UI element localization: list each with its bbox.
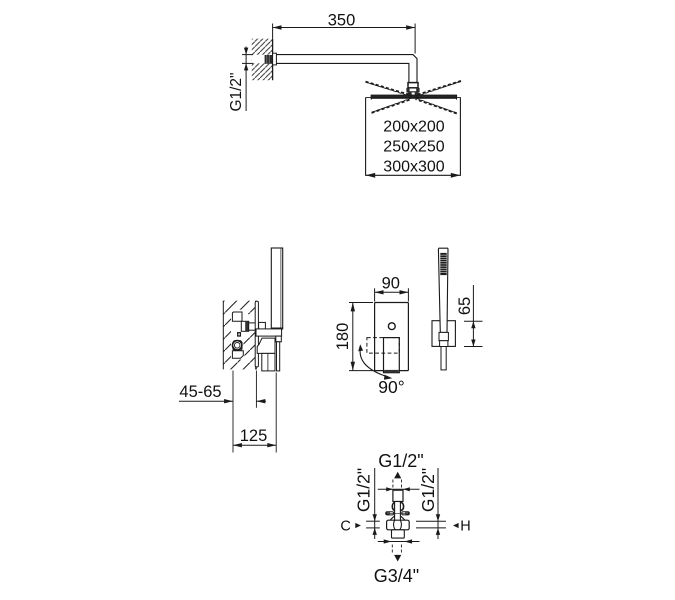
valve body clearance halo xyxy=(231,310,256,360)
handshower side view body xyxy=(271,248,282,329)
mixer pipe collar xyxy=(241,321,248,331)
mounting wings xyxy=(386,512,410,515)
svg-text:G1/2": G1/2" xyxy=(354,468,374,512)
mixer top block xyxy=(232,312,242,321)
svg-text:45-65: 45-65 xyxy=(179,383,221,401)
diverter button xyxy=(388,323,395,330)
left inlet pipe xyxy=(366,521,380,528)
extension line depth ref xyxy=(232,371,234,453)
swivel joint lower blobs xyxy=(408,92,419,95)
holder step xyxy=(440,341,448,347)
wall hatch top xyxy=(252,39,273,80)
lever handle bar xyxy=(277,342,280,371)
bracket lip xyxy=(276,336,282,342)
valve top tube xyxy=(393,490,403,501)
dimension 125 xyxy=(233,443,276,447)
collar shading xyxy=(245,322,248,331)
mixer outlet pipe xyxy=(249,323,265,330)
mixer bottom block xyxy=(232,351,243,359)
rotation arc xyxy=(360,347,389,378)
extension line wall face xyxy=(255,371,257,408)
dimension 350 xyxy=(273,24,416,54)
size box xyxy=(366,97,461,175)
handle front xyxy=(384,338,400,373)
svg-text:200x200: 200x200 xyxy=(383,119,444,136)
dashed leaders top xyxy=(393,480,402,489)
svg-text:G1/2": G1/2" xyxy=(228,72,245,111)
svg-text:C: C xyxy=(340,518,350,534)
left inlet dimension xyxy=(373,468,377,539)
shower arm horizontal tube xyxy=(273,55,417,83)
svg-text:65: 65 xyxy=(456,297,474,315)
valve body xyxy=(387,520,410,530)
ball collar arcs xyxy=(392,502,403,510)
dimension 180 xyxy=(349,303,373,371)
arc arrowheads xyxy=(358,344,392,380)
dimension 65 xyxy=(464,285,483,347)
holder cup xyxy=(439,332,448,340)
cartridge circle xyxy=(233,341,242,350)
right inlet dimension xyxy=(436,468,440,539)
valve stem xyxy=(395,502,401,524)
svg-text:H: H xyxy=(460,519,470,535)
mixer screw xyxy=(238,333,241,336)
wall back edge line xyxy=(222,301,224,370)
svg-text:G1/2": G1/2" xyxy=(378,451,423,471)
svg-text:300x300: 300x300 xyxy=(383,159,444,176)
handshower wall plate xyxy=(432,321,455,347)
hose tube xyxy=(441,347,446,370)
svg-text:350: 350 xyxy=(328,12,356,30)
svg-text:250x250: 250x250 xyxy=(383,139,444,156)
arrow up xyxy=(394,472,401,479)
dimension G1/2 arm thread xyxy=(242,47,253,112)
valve nut xyxy=(392,530,405,538)
shower head plate xyxy=(371,95,457,98)
svg-text:180: 180 xyxy=(334,323,352,351)
wall face line mid xyxy=(255,301,257,370)
right inlet pipe xyxy=(416,521,446,528)
bottom thread dimension xyxy=(378,539,420,543)
wall face line top xyxy=(272,39,274,80)
dimension 90 xyxy=(375,288,409,301)
top thread dimension xyxy=(378,487,420,491)
shoulders xyxy=(390,516,405,520)
mixer plate front xyxy=(375,303,409,371)
handshower body xyxy=(438,248,448,332)
extension line lever tip xyxy=(275,373,277,453)
arrow H xyxy=(453,523,459,528)
dimension 45-65 xyxy=(179,399,266,403)
threaded connector in wall xyxy=(265,55,273,64)
elbow swivel joint xyxy=(406,88,419,93)
outlet collar above bracket xyxy=(259,322,266,330)
arrow C xyxy=(355,523,361,528)
elbow connector stack xyxy=(408,83,418,88)
handshower spray face xyxy=(440,253,446,275)
arrow down xyxy=(394,555,401,562)
cartridge hex xyxy=(233,341,242,351)
bracket arm xyxy=(256,329,282,336)
head diagonal dashed rays xyxy=(366,81,462,113)
wall hatch mid xyxy=(223,301,256,370)
lever lower bar xyxy=(262,353,275,371)
svg-text:90°: 90° xyxy=(378,377,404,397)
dashed handle rotated position xyxy=(367,338,399,354)
size box arrows xyxy=(366,173,461,178)
svg-text:125: 125 xyxy=(240,427,268,445)
svg-text:90: 90 xyxy=(382,274,400,292)
svg-text:G3/4": G3/4" xyxy=(374,566,419,586)
escutcheon plate side xyxy=(255,301,258,367)
stem waist inside body xyxy=(393,520,401,530)
svg-text:G1/2": G1/2" xyxy=(418,468,438,512)
arm wall flange xyxy=(273,53,277,65)
dashed leaders bottom xyxy=(392,545,401,554)
lever upper block xyxy=(257,338,275,353)
